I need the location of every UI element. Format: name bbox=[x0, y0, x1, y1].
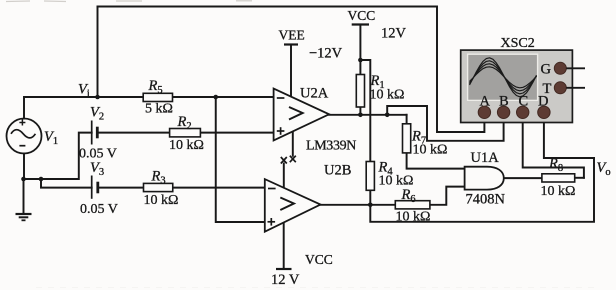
node R5-R2 junction bbox=[213, 95, 218, 100]
node Vi junction bbox=[95, 95, 100, 100]
wire U2B upper pin bbox=[283, 164, 285, 189]
svg-text:VEE: VEE bbox=[279, 28, 305, 43]
oscilloscope XSC2 bbox=[461, 36, 585, 123]
svg-text:7408N: 7408N bbox=[466, 192, 506, 208]
wire R1 bottom bbox=[359, 107, 361, 115]
node V1 bottom bbox=[21, 177, 26, 182]
resistor R4 bbox=[366, 162, 374, 191]
wire U2A output bbox=[329, 114, 407, 116]
wire R8 right bbox=[575, 177, 584, 179]
resistor R8 bbox=[542, 174, 575, 182]
x mark U2A pin bbox=[290, 156, 296, 163]
svg-text:10 kΩ: 10 kΩ bbox=[169, 138, 204, 153]
wire U2B VCC pin bbox=[283, 222, 285, 268]
wire V3 to R3 bbox=[98, 187, 144, 189]
wire top rail Vi to scope A bbox=[98, 7, 485, 133]
svg-text:U2A: U2A bbox=[300, 86, 329, 102]
wire U1A output to R8 bbox=[504, 177, 542, 179]
AND gate U1A bbox=[465, 167, 504, 190]
source V1 bbox=[7, 119, 42, 154]
wire U2A output to scope B bbox=[387, 106, 503, 141]
wire U2B output to Vo rail bbox=[370, 158, 594, 222]
wire V1 bottom to ground rail bbox=[23, 154, 25, 180]
wire scope D to Vo node bbox=[544, 112, 594, 158]
battery V2 bbox=[92, 121, 98, 145]
wire R7 top stem bbox=[406, 115, 408, 124]
svg-text:VCC: VCC bbox=[348, 8, 376, 23]
svg-text:12V: 12V bbox=[381, 26, 407, 42]
wire R3 to U2B minus bbox=[173, 187, 265, 189]
wire U2A lower pin bbox=[292, 132, 294, 156]
wire node to U2B plus bbox=[216, 97, 265, 222]
VEE supply bbox=[284, 43, 298, 45]
resistor R6 bbox=[395, 201, 430, 209]
op-amp U2A (comparator) bbox=[274, 89, 330, 141]
x mark U2B pin bbox=[281, 157, 287, 164]
battery V3 bbox=[92, 176, 98, 199]
wire R5 to U2A minus bbox=[173, 96, 274, 98]
VCC supply top bbox=[352, 23, 369, 25]
node U2B output bbox=[368, 203, 373, 208]
resistor R5 bbox=[143, 93, 172, 101]
node VCC branch bbox=[358, 58, 363, 63]
wire VCC branch to R4 bbox=[360, 60, 370, 162]
wire R4 bottom bbox=[369, 190, 371, 205]
scan artifact bottom line bbox=[36, 287, 600, 289]
wire U2A VEE pin bbox=[290, 45, 292, 96]
wire V1 top to R5 bbox=[24, 97, 143, 119]
svg-text:U2B: U2B bbox=[324, 163, 351, 179]
node scope B tap bbox=[385, 113, 390, 118]
wire VCC stem to R1 bbox=[359, 25, 361, 75]
wire R6 to U1A input bbox=[430, 187, 465, 205]
resistor R3 bbox=[144, 183, 173, 191]
svg-text:10 kΩ: 10 kΩ bbox=[370, 88, 405, 103]
node R1 output bbox=[358, 113, 363, 118]
svg-text:5 kΩ: 5 kΩ bbox=[145, 102, 173, 117]
wire ground rail bbox=[24, 133, 92, 179]
resistor R2 bbox=[170, 129, 201, 137]
svg-text:12 V: 12 V bbox=[271, 272, 300, 288]
wire V3 branch bbox=[41, 179, 92, 188]
svg-text:0.05 V: 0.05 V bbox=[80, 202, 118, 217]
svg-text:10 kΩ: 10 kΩ bbox=[413, 143, 448, 158]
svg-text:10 kΩ: 10 kΩ bbox=[396, 210, 431, 225]
svg-text:XSC2: XSC2 bbox=[501, 36, 535, 51]
svg-text:U1A: U1A bbox=[471, 150, 500, 166]
scope waveform bbox=[470, 58, 537, 97]
svg-text:LM339N: LM339N bbox=[306, 139, 356, 154]
wire scope C to R8 right bbox=[523, 112, 584, 178]
svg-text:G: G bbox=[541, 62, 552, 78]
svg-text:−12V: −12V bbox=[309, 46, 343, 62]
scan artifact top marks bbox=[6, 0, 252, 3]
svg-text:VCC: VCC bbox=[305, 252, 333, 267]
wire R2 to U2A plus bbox=[200, 132, 273, 134]
wire left vertical Vi bbox=[97, 7, 99, 98]
resistor R7 bbox=[403, 124, 411, 153]
node V3 branch bbox=[39, 177, 44, 182]
ground bbox=[16, 214, 32, 220]
VCC supply bottom bbox=[276, 268, 292, 270]
wire V2 to R2 bbox=[97, 132, 170, 134]
resistor R1 bbox=[356, 75, 364, 108]
op-amp U2B (comparator) bbox=[265, 179, 321, 232]
svg-text:10 kΩ: 10 kΩ bbox=[144, 193, 179, 208]
wire ground stem bbox=[23, 179, 25, 214]
wire R7 bottom to U1A input bbox=[407, 153, 465, 169]
svg-text:10 kΩ: 10 kΩ bbox=[541, 184, 576, 199]
wire U2B output bbox=[321, 204, 396, 206]
